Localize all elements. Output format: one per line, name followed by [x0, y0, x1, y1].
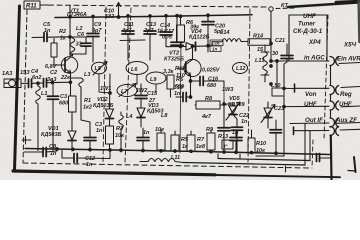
svg-text:10к: 10к: [256, 148, 266, 154]
svg-text:0,025V: 0,025V: [202, 68, 221, 74]
wire bus drop C11: [127, 16, 129, 31]
right line 129.5: [340, 128, 360, 131]
svg-text:1n: 1n: [174, 91, 181, 97]
wire UHF 107: [284, 105, 329, 107]
node G4: [109, 149, 112, 152]
right line 106.5: [341, 105, 360, 108]
node B1: [69, 15, 72, 18]
capacitor C22: [223, 104, 225, 128]
svg-text:КТ325Б: КТ325Б: [164, 57, 184, 63]
transistor VT1: [61, 57, 77, 73]
svg-text:C2: C2: [50, 70, 57, 76]
svg-text:R9: R9: [206, 127, 214, 133]
left border: [15, 6, 20, 170]
svg-text:3,3к: 3,3к: [163, 69, 175, 75]
node B6: [165, 15, 168, 18]
wire emitter down: [70, 73, 72, 96]
wire compartment tie: [120, 39, 145, 42]
wire supply column: [270, 11, 272, 61]
svg-text:ГТ346А: ГТ346А: [67, 12, 87, 18]
svg-text:Out IF: Out IF: [305, 117, 323, 124]
node G5: [120, 149, 123, 152]
wire C5 to collector riser: [47, 36, 70, 38]
resistor Rb1 box: [157, 133, 165, 150]
resistor R2 box: [51, 43, 57, 57]
svg-text:1n: 1n: [86, 162, 93, 168]
svg-text:C6: C6: [77, 32, 85, 38]
wire bus drop C9: [92, 16, 94, 33]
nest vertical c: [309, 131, 311, 161]
svg-text:R8: R8: [205, 96, 213, 102]
wire VT2 base: [178, 67, 186, 69]
svg-text:680: 680: [207, 83, 216, 89]
node cross left: [22, 136, 31, 144]
right border: [357, 1, 360, 42]
node: [37, 82, 40, 85]
right line 63: [339, 63, 360, 64]
wire C5 row: [32, 36, 44, 38]
winding 1W3 mark: [223, 88, 225, 101]
wire bottom long a: [183, 163, 305, 166]
svg-text:1n: 1n: [232, 130, 239, 136]
svg-text:1к8: 1к8: [196, 144, 206, 150]
wire R1 to VD1: [71, 112, 73, 131]
svg-text:1А3: 1А3: [2, 71, 13, 77]
svg-text:С23: С23: [274, 106, 284, 112]
svg-text:L8: L8: [161, 113, 168, 119]
wire feed 284: [283, 64, 285, 156]
capacitor C4: [28, 79, 30, 88]
wire IF cap: [320, 157, 331, 159]
capacitor C2 shunt: [89, 122, 91, 137]
svg-text:1n: 1n: [143, 130, 150, 136]
svg-text:UHF: UHF: [339, 101, 352, 108]
svg-text:L11: L11: [171, 155, 180, 161]
capacitor C19: [176, 96, 182, 98]
resistor Rb4 box: [207, 133, 215, 150]
inductor L4: [119, 112, 124, 152]
capacitor C9: [87, 33, 99, 35]
wire bus drop C13: [149, 16, 151, 31]
resistor R10 box: [248, 138, 255, 153]
svg-text:R11: R11: [26, 4, 37, 10]
wire AGC 61: [271, 60, 329, 62]
svg-text:КВ109: КВ109: [228, 102, 245, 108]
svg-text:1n: 1n: [44, 28, 51, 34]
varicap VD6: [264, 108, 272, 117]
svg-text:СК-Д-30-1: СК-Д-30-1: [293, 28, 323, 35]
wire bus drop to L2: [69, 6, 71, 37]
resistor R11 box: [24, 1, 40, 9]
svg-text:C15: C15: [147, 91, 158, 97]
svg-text:C18: C18: [212, 41, 221, 46]
wire C4 to C1: [32, 82, 44, 84]
inductor L11: [140, 159, 183, 163]
wire row tie: [161, 130, 211, 135]
wire OutIF 123: [290, 122, 329, 125]
coil can L7: [117, 85, 137, 97]
svg-text:4к7: 4к7: [201, 114, 212, 120]
node G9: [190, 150, 193, 153]
svg-text:Tuner: Tuner: [298, 21, 316, 28]
svg-text:R14: R14: [253, 34, 263, 40]
nest vertical b: [304, 123, 306, 165]
label box 1n: [210, 46, 221, 52]
svg-text:UHF: UHF: [304, 101, 317, 108]
pin bump 122.5: [330, 118, 339, 127]
svg-text:680: 680: [59, 101, 68, 107]
svg-text:R1: R1: [84, 98, 91, 104]
diode VD3: [137, 108, 145, 117]
capacitor C6: [85, 37, 87, 43]
node B7: [176, 14, 179, 17]
svg-text:ХР4: ХР4: [308, 39, 321, 46]
svg-text:110: 110: [176, 73, 185, 79]
capacitor C13: [144, 30, 156, 32]
wire C10 arrow: [118, 3, 120, 18]
svg-text:Von: Von: [305, 91, 317, 98]
node: [69, 36, 72, 39]
wire Von 88 + cap plate: [294, 84, 296, 92]
wire stub 240: [239, 154, 241, 159]
svg-text:30: 30: [272, 51, 278, 57]
wire R11 to dashed: [40, 4, 48, 6]
node G1: [56, 148, 59, 151]
pin bump 105.5: [330, 101, 339, 110]
svg-text:1n: 1n: [241, 119, 248, 125]
svg-text:6п2: 6п2: [32, 75, 41, 81]
capacitor C1: [43, 79, 45, 88]
svg-text:15: 15: [257, 47, 264, 53]
resistor Rb2 box: [171, 135, 179, 151]
capacitor C8: [24, 151, 42, 153]
svg-text:Ein AVR: Ein AVR: [337, 56, 360, 63]
svg-text:4p7: 4p7: [121, 28, 132, 34]
node G13: [250, 151, 253, 154]
border corner right: [354, 157, 356, 172]
svg-text:1W1: 1W1: [100, 86, 111, 92]
coil can L5: [92, 62, 107, 74]
wire top bus: [55, 15, 252, 18]
svg-text:t°: t°: [224, 144, 228, 149]
pin bump 90: [330, 86, 339, 95]
wire 130.5 + cap plate: [293, 127, 295, 135]
node G11: [223, 151, 226, 154]
svg-text:R2: R2: [59, 29, 66, 35]
svg-text:L14: L14: [220, 30, 229, 36]
capacitor C15: [140, 84, 142, 95]
wire bus drop C14: [165, 16, 167, 32]
svg-text:182: 182: [105, 14, 114, 20]
paper background: [0, 0, 360, 180]
wire R14 to column: [270, 43, 271, 45]
wire IF down: [330, 136, 333, 181]
svg-text:UHF: UHF: [303, 13, 316, 20]
partition dashed B: [125, 8, 131, 162]
svg-text:1W2: 1W2: [136, 88, 147, 94]
inductor L14: [212, 39, 248, 42]
capacitor C14: [160, 31, 172, 33]
svg-text:15З: 15З: [20, 70, 30, 76]
svg-text:Х5Ч: Х5Ч: [343, 42, 357, 49]
svg-text:C8: C8: [49, 144, 57, 150]
partition solid wall: [180, 42, 181, 153]
svg-text:C21: C21: [275, 38, 285, 44]
node G7: [160, 150, 163, 153]
node G10: [210, 150, 213, 153]
node G6: [142, 149, 145, 152]
tuner label box: [289, 15, 327, 61]
svg-text:in AGC: in AGC: [304, 55, 325, 62]
svg-text:L12: L12: [236, 66, 245, 72]
resistor R1 box: [69, 96, 77, 112]
partition dashed C: [248, 9, 250, 162]
node B2: [92, 15, 95, 18]
svg-text:1W3: 1W3: [222, 87, 233, 93]
svg-text:1n: 1n: [50, 151, 57, 157]
node AGC: [270, 60, 273, 63]
right line 123: [335, 122, 360, 125]
varicap VD5: [224, 101, 233, 106]
svg-text:10к: 10к: [155, 127, 165, 133]
wire stub 285: [285, 166, 287, 172]
connector joints: [330, 66, 332, 119]
wire bottom long b: [218, 159, 310, 161]
svg-text:R10: R10: [256, 141, 266, 147]
svg-text:L6: L6: [131, 67, 138, 73]
capacitor C17: [176, 16, 178, 42]
capacitor C12: [62, 151, 73, 159]
shield top dashed: [40, 5, 266, 7]
svg-text:L9: L9: [150, 77, 157, 83]
right line 87: [341, 87, 360, 88]
test point KT circle: [269, 7, 273, 11]
svg-text:10к: 10к: [115, 133, 125, 139]
wire VD2 column: [109, 74, 112, 109]
resistor R8 box: [196, 101, 220, 109]
svg-text:R13: R13: [218, 134, 228, 140]
svg-text:22к: 22к: [60, 75, 71, 81]
svg-text:до5: до5: [162, 35, 173, 41]
wire VT2 emitter down: [190, 76, 192, 98]
svg-text:L7: L7: [121, 89, 128, 95]
svg-text:C16: C16: [208, 77, 219, 83]
wire antenna to C4: [21, 82, 28, 84]
diode VD4: [186, 43, 195, 51]
border corner blob: [336, 1, 360, 2]
shield bottom dashed: [23, 163, 310, 168]
svg-text:L1: L1: [41, 91, 47, 97]
svg-text:L50: L50: [271, 83, 280, 89]
svg-text:КД503Б: КД503Б: [41, 132, 62, 138]
wire R2 leads: [54, 39, 65, 66]
diode VD2: [106, 109, 114, 118]
capacitor C21: [286, 44, 288, 55]
capacitor C24: [275, 120, 277, 130]
connector dashed boundary: [324, 15, 328, 140]
coil can L9: [146, 72, 166, 84]
ground bus: [25, 149, 330, 155]
svg-text:L3: L3: [84, 72, 90, 78]
inductor L3: [70, 78, 90, 122]
node G2: [72, 148, 75, 151]
svg-text:Aus ZF: Aus ZF: [335, 117, 357, 124]
svg-text:33: 33: [76, 42, 82, 48]
wire R5 down: [170, 89, 172, 97]
inductor L2: [70, 37, 75, 56]
inductor L1: [36, 83, 41, 150]
wire L9 stub: [155, 84, 157, 92]
node emitter input: [69, 81, 72, 84]
node B3: [117, 16, 120, 19]
wire KT dash right: [276, 7, 294, 10]
svg-text:КТ: КТ: [281, 3, 288, 9]
wire osc row 46: [166, 46, 186, 48]
label box C18: [210, 40, 223, 46]
connector XS3: [4, 79, 21, 88]
svg-text:1n: 1n: [96, 128, 103, 134]
capacitor Cb1: [142, 128, 144, 137]
wire L2/C6 ties: [70, 37, 86, 54]
coil can L12: [233, 63, 248, 74]
svg-text:2p7: 2p7: [143, 28, 154, 34]
wire L5 bottom: [99, 74, 110, 93]
capacitor Cb2: [235, 130, 237, 137]
node B4: [127, 15, 130, 18]
svg-text:R5: R5: [181, 137, 189, 143]
capacitor C11: [122, 30, 134, 32]
transistor VT2: [184, 59, 201, 76]
capacitor C5: [43, 33, 45, 42]
resistor R5 box: [167, 75, 174, 89]
pin bump 61: [330, 57, 339, 66]
capacitor C3 shunt: [52, 83, 54, 97]
capacitor C23: [233, 115, 237, 128]
resistor R14 box: [248, 39, 270, 46]
svg-text:L4: L4: [126, 114, 132, 120]
svg-text:L13: L13: [255, 58, 264, 64]
wire C1 to emitter: [47, 81, 71, 84]
node B5: [149, 15, 152, 18]
svg-text:1n: 1n: [212, 47, 217, 52]
svg-text:R7: R7: [197, 137, 205, 143]
inductor L13: [261, 45, 269, 82]
top-right border: [288, 3, 358, 8]
node B8: [207, 14, 210, 17]
capacitor C20: [207, 15, 209, 21]
wire feed 277: [276, 61, 278, 88]
node G12: [235, 151, 238, 154]
svg-text:L5: L5: [95, 66, 102, 72]
node G14: [275, 152, 278, 155]
coil box L50: [272, 88, 284, 96]
node: [51, 81, 54, 84]
capacitor Cif: [316, 154, 318, 162]
svg-text:6p7: 6p7: [92, 28, 102, 34]
resistor R6 box: [177, 25, 185, 42]
wire L6 stub: [136, 75, 138, 84]
shield left dashed: [23, 10, 27, 162]
resistor Rb3 box: [187, 135, 195, 151]
capacitor C16: [191, 80, 200, 82]
pin bump 131: [330, 127, 339, 136]
bottom border: [13, 171, 215, 175]
svg-text:3в3: 3в3: [47, 77, 56, 83]
thermistor box: [222, 140, 233, 149]
svg-text:R12: R12: [175, 66, 185, 72]
partition dashed D: [312, 140, 313, 168]
svg-text:1к2: 1к2: [83, 105, 92, 111]
partition dashed A: [103, 7, 106, 162]
svg-text:КД503Б: КД503Б: [93, 103, 114, 109]
wire stub 218: [217, 154, 219, 159]
svg-text:R3: R3: [116, 126, 123, 132]
resistor R3 box: [106, 126, 114, 144]
svg-text:C3: C3: [60, 94, 67, 100]
node G8: [174, 150, 177, 153]
svg-text:Reg: Reg: [340, 91, 352, 98]
nest horizontal a: [256, 155, 284, 157]
node G3: [89, 148, 92, 151]
coil can L6: [126, 62, 148, 75]
svg-text:КД122Б: КД122Б: [189, 35, 210, 41]
diode VD1: [68, 131, 76, 140]
